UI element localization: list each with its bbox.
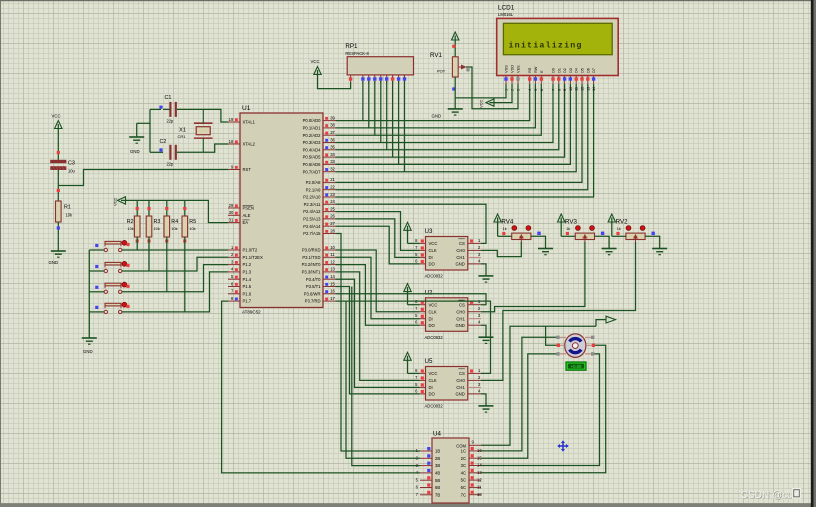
svg-text:10: 10 — [330, 245, 335, 250]
svg-text:CH1: CH1 — [456, 316, 465, 321]
svg-text:1k: 1k — [566, 227, 570, 231]
svg-text:17: 17 — [330, 296, 335, 301]
wire key1 to P1.0 — [122, 249, 228, 251]
svg-text:21: 21 — [330, 177, 335, 182]
wire P2.1 to LCD (bus line) — [336, 84, 588, 190]
U4 pin 2 2B — [416, 454, 441, 461]
LCD pin 2 VDD — [510, 65, 515, 91]
svg-text:R3: R3 — [154, 219, 161, 225]
svg-text:32: 32 — [330, 167, 335, 172]
motor rpm display — [566, 362, 586, 370]
svg-text:P1.4: P1.4 — [243, 277, 252, 282]
svg-text:RW: RW — [533, 66, 538, 73]
svg-text:GND: GND — [455, 392, 464, 397]
node blue square on ground bus row 2 — [95, 265, 98, 268]
svg-text:29: 29 — [229, 203, 234, 208]
pot RV3 1k body — [565, 219, 595, 244]
U1 pin 19 XTAL1 — [228, 117, 256, 125]
U1 pin 17 P3.7/RD — [305, 296, 336, 304]
LCD pin 11 D4 — [574, 67, 579, 91]
svg-text:R2: R2 — [127, 219, 134, 225]
watermark CSDN — [741, 488, 801, 502]
adc U5 ADC0832 body — [425, 358, 468, 409]
svg-text:DI: DI — [429, 255, 433, 260]
svg-text:DI: DI — [429, 385, 433, 390]
svg-text:RST: RST — [243, 167, 252, 172]
svg-text:GND: GND — [49, 260, 59, 265]
svg-text:5B: 5B — [435, 478, 440, 483]
U1 pin 9 RST — [228, 164, 251, 172]
svg-text:CS: CS — [459, 371, 465, 376]
wire U5 CS to U1 — [336, 301, 491, 373]
svg-text:P1.6: P1.6 — [243, 291, 252, 296]
wire P0.0 to LCD (bus line) — [336, 84, 530, 121]
wire R4 bottom to key row — [166, 237, 168, 292]
U3 pin 3 CH1 — [456, 252, 481, 260]
power flag VCC (RV3) — [558, 214, 576, 236]
svg-text:P2.1/A9: P2.1/A9 — [306, 187, 322, 192]
U1 pin 39 P0.0/AD0 — [303, 115, 336, 123]
svg-text:8: 8 — [556, 89, 561, 91]
svg-text:RESPACK-8: RESPACK-8 — [345, 51, 369, 56]
U5 pin 1 CS — [458, 368, 481, 376]
resistor R3 10k — [146, 216, 160, 237]
U1 pin 24 P2.3/A11 — [304, 199, 336, 207]
wire P0.2 to LCD (bus line) — [336, 84, 542, 135]
U4 pin 12 5C — [461, 476, 483, 483]
svg-text:10: 10 — [477, 492, 482, 497]
wire U4 3C to motor coil C — [481, 354, 600, 466]
wire P3.3 to U5 CLK — [336, 272, 420, 381]
wire LCD VEE to RV1 wiper — [466, 67, 518, 109]
ground symbol near X1 — [129, 137, 144, 154]
wire C3 to R1 with RST tap — [58, 170, 228, 202]
resistor R2 10k — [127, 216, 140, 237]
svg-text:7C: 7C — [461, 492, 466, 497]
wire P3.5 to U5 DO — [336, 287, 420, 394]
svg-text:27: 27 — [330, 221, 335, 226]
wire P0.1 to LCD (bus line) — [336, 84, 536, 128]
LCD pin 12 D5 — [580, 68, 585, 91]
power flag VCC (RV4) — [494, 214, 512, 236]
svg-text:RV3: RV3 — [565, 219, 577, 226]
wire P2.5 to U3 DI — [336, 219, 420, 258]
svg-text:13: 13 — [585, 87, 590, 91]
U1 pin 6 P1.5 — [228, 281, 252, 289]
U1 pin 22 P2.1/A9 — [306, 185, 336, 193]
U1 pin 28 P2.7/A15 — [303, 228, 335, 236]
svg-text:R4: R4 — [171, 219, 178, 225]
power flag VCC (RP1 common) — [311, 59, 322, 76]
adc U3 ADC0832 body — [425, 228, 468, 279]
wire RP1 pin2 to P0.0 bus — [362, 81, 364, 121]
svg-text:VSS: VSS — [504, 65, 509, 73]
U4 pin 4 4B — [416, 469, 441, 476]
svg-text:36: 36 — [330, 137, 335, 142]
wire key4 to P1.3 — [122, 272, 228, 312]
ground symbol for buttons — [82, 338, 97, 354]
U2 pin 1 CS — [458, 299, 481, 307]
U1 pin 7 P1.6 — [228, 289, 252, 297]
svg-text:POT: POT — [437, 69, 446, 74]
RP1 pin 9 — [403, 75, 406, 84]
svg-text:C1: C1 — [165, 95, 172, 101]
resistor R4 10k — [164, 216, 178, 237]
svg-text:34: 34 — [330, 152, 335, 157]
svg-text:D3: D3 — [568, 68, 573, 73]
RP1 pin 8 — [397, 75, 400, 84]
svg-text:5: 5 — [533, 89, 538, 91]
U4 pin 15 2C — [461, 454, 483, 461]
U1 pin 27 P2.6/A14 — [303, 221, 335, 229]
U1 pin 34 P0.5/AD5 — [303, 152, 336, 160]
node red square at button K1 — [126, 243, 129, 246]
svg-text:CSDN @cc: CSDN @cc — [741, 490, 792, 501]
svg-text:P0.6/AD6: P0.6/AD6 — [303, 162, 322, 167]
pot RV4 1k body — [501, 219, 531, 244]
svg-text:D2: D2 — [562, 68, 567, 73]
wire RP1 pin7 to P0.5 bus — [392, 81, 394, 157]
U3 pin 8 VCC — [415, 238, 437, 246]
capacitor C3 10u (electrolytic) — [50, 160, 75, 174]
wire R2 bottom to key row — [136, 237, 138, 250]
svg-text:XTAL1: XTAL1 — [243, 120, 256, 125]
U1 pin 33 P0.6/AD6 — [303, 159, 336, 167]
svg-text:33: 33 — [330, 159, 335, 164]
node red square above R3 — [147, 207, 150, 210]
svg-text:14: 14 — [330, 274, 335, 279]
wire P3.4 to U5 DI — [336, 279, 420, 387]
U1 pin 13 P3.3/INT1 — [302, 267, 336, 275]
svg-text:P2.3/A11: P2.3/A11 — [304, 202, 322, 207]
U3 pin 5 DI — [415, 252, 433, 260]
wire R5 bottom to key row — [184, 237, 186, 312]
wire key3 to P1.2 — [122, 265, 228, 292]
svg-text:RV4: RV4 — [501, 219, 513, 226]
power flag VCC (RV1) — [452, 32, 459, 42]
svg-text:D0: D0 — [551, 67, 556, 73]
svg-text:22: 22 — [330, 185, 335, 190]
U4 pin 1 1B — [416, 447, 441, 454]
svg-text:R1: R1 — [64, 205, 71, 211]
motor body — [565, 334, 586, 358]
svg-text:9: 9 — [562, 89, 567, 91]
wire RP1 pin8 to P0.6 bus — [398, 81, 400, 164]
svg-text:initializing: initializing — [509, 41, 583, 51]
node gray square at RV1 wiper — [466, 68, 469, 71]
adc U2 ADC0832 body — [425, 289, 468, 340]
U1 pin 11 P3.1/TXD — [302, 252, 335, 260]
svg-text:P0.7/AD7: P0.7/AD7 — [303, 169, 322, 174]
svg-text:38: 38 — [330, 123, 335, 128]
svg-text:VCC: VCC — [429, 371, 438, 376]
U1 pin 35 P0.4/AD4 — [303, 145, 336, 153]
svg-text:P0.3/AD3: P0.3/AD3 — [303, 140, 322, 145]
wire key2 to P1.1 — [122, 257, 228, 271]
key ground bus (left) — [88, 250, 90, 338]
wire P0.4 to LCD (bus line) — [336, 84, 559, 150]
pot RV2 1k body — [616, 219, 646, 244]
svg-text:24: 24 — [330, 199, 335, 204]
svg-text:P3.4/T0: P3.4/T0 — [306, 277, 321, 282]
power flag VCC (RV2) — [608, 214, 626, 236]
ground tap wire near X1 — [137, 123, 150, 137]
svg-text:11: 11 — [477, 485, 482, 490]
LCD pin 10 D3 — [568, 68, 573, 91]
svg-text:P0.1/AD1: P0.1/AD1 — [303, 126, 322, 131]
wire RV3 right terminal to ground — [595, 236, 610, 248]
node red square at button K2 — [126, 264, 129, 267]
node red square above R4 — [165, 207, 168, 210]
U1 pin 12 P3.2/INT0 — [302, 259, 336, 267]
svg-text:5C: 5C — [461, 478, 466, 483]
wire RP1 pin9 to P0.7 bus — [404, 81, 406, 172]
U1 pin 1 P1.0/T2 — [228, 245, 258, 253]
lcd screen with text initializing — [503, 23, 612, 54]
node red square at button K3 — [126, 285, 129, 288]
wire P0.6 to LCD (bus line) — [336, 84, 571, 164]
wire U4 1C to motor coil A — [481, 337, 556, 451]
U1 pin 18 XTAL2 — [228, 139, 256, 147]
U1 pin 32 P0.7/AD7 — [303, 167, 336, 175]
wire net to U4 3B — [352, 287, 420, 466]
U5 pin 7 CLK — [415, 375, 437, 383]
svg-text:10k: 10k — [171, 226, 177, 231]
svg-text:DI: DI — [429, 316, 433, 321]
power flag VCC (U5) — [404, 352, 420, 373]
U5 pin 2 CH0 — [456, 375, 481, 383]
node blue square on ground bus row 4 — [95, 306, 98, 309]
node blue square left of C1 — [159, 106, 162, 109]
svg-text:RV2: RV2 — [616, 219, 628, 226]
svg-text:E: E — [539, 70, 544, 73]
RP1 pin 5 — [379, 75, 382, 84]
svg-text:VCC: VCC — [311, 59, 320, 64]
U4 pin 13 4C — [461, 469, 483, 476]
svg-text:23: 23 — [330, 192, 335, 197]
svg-text:+0.00: +0.00 — [571, 364, 582, 369]
wire U4 2C to motor coil B — [481, 354, 556, 458]
svg-text:RV1: RV1 — [430, 52, 442, 59]
wire P0.3 to LCD (bus line) — [336, 84, 554, 143]
svg-text:C2: C2 — [160, 139, 167, 145]
svg-text:26: 26 — [330, 214, 335, 219]
U1 pin 21 P2.0/A8 — [306, 177, 336, 185]
U3 pin 6 DO — [415, 258, 435, 266]
svg-text:D1: D1 — [556, 68, 561, 73]
U1 pin 2 P1.1/T2EX — [228, 252, 263, 260]
capacitor C1 22p — [165, 95, 177, 124]
svg-text:10k: 10k — [154, 226, 160, 231]
svg-text:P1.0/T2: P1.0/T2 — [243, 248, 258, 253]
U1 pin 23 P2.2/A10 — [303, 192, 335, 200]
U2 pin 4 GND — [455, 320, 481, 328]
wire RV4 right terminal to ground — [531, 236, 546, 248]
wire LCD VDD to VCC — [495, 84, 512, 103]
node blue square on ground bus row 3 — [95, 286, 98, 289]
svg-text:CLK: CLK — [429, 378, 437, 383]
U2 pin 8 VCC — [415, 299, 437, 307]
node blue square right of RV4 — [537, 232, 540, 235]
svg-text:18: 18 — [229, 139, 234, 144]
svg-text:1B: 1B — [435, 449, 440, 454]
U4 pin 16 1C — [461, 447, 483, 454]
ground symbol (RV4) — [538, 249, 553, 255]
LCD pin 5 RW — [533, 66, 538, 91]
ground symbol below R1 — [49, 251, 66, 265]
wire RV1 bottom to ground — [454, 77, 456, 109]
power flag VCC (U3) — [404, 222, 420, 243]
U1 pin 15 P3.5/T1 — [306, 281, 336, 289]
node red square above C3 — [57, 151, 60, 154]
svg-text:P3.7/RD: P3.7/RD — [305, 299, 321, 304]
wire U2 CS to U1 — [336, 294, 487, 305]
svg-text:⁴: ⁴ — [787, 489, 790, 496]
svg-text:XTAL2: XTAL2 — [243, 142, 256, 147]
wire RP1 pin4 to P0.2 bus — [374, 81, 376, 135]
node red square left of RV2 — [616, 232, 619, 235]
svg-text:10u: 10u — [68, 169, 75, 174]
svg-text:RS: RS — [527, 67, 532, 73]
U3 pin 2 CH0 — [456, 245, 481, 253]
wire VCC to RV1 top — [454, 41, 456, 57]
U1 pin 3 P1.2 — [228, 259, 252, 267]
svg-text:GND: GND — [83, 349, 93, 354]
U1 pin 31 EA — [228, 217, 250, 225]
svg-text:6: 6 — [539, 89, 544, 91]
svg-text:P2.0/A8: P2.0/A8 — [306, 180, 322, 185]
wire C1 net to XTAL1 — [163, 109, 228, 122]
svg-text:DO: DO — [429, 392, 436, 397]
svg-text:PSEN: PSEN — [243, 206, 254, 211]
svg-text:C3: C3 — [68, 161, 75, 167]
svg-text:VCC: VCC — [479, 99, 484, 108]
svg-text:X1: X1 — [179, 128, 186, 134]
wire RV2 right terminal to ground — [645, 236, 660, 248]
svg-text:1C: 1C — [461, 449, 466, 454]
svg-text:16: 16 — [330, 289, 335, 294]
node red square left of RV4 — [502, 232, 505, 235]
push button K3 — [89, 282, 127, 293]
wire R3 bottom to key row — [148, 237, 150, 271]
U4 pin 14 3C — [461, 462, 483, 469]
wire P2.0 to LCD (bus line) — [336, 84, 583, 182]
RP1 pin 3 — [367, 75, 370, 84]
node blue square below R1 — [57, 226, 60, 229]
U2 pin 6 DO — [415, 320, 435, 328]
svg-text:15: 15 — [330, 281, 335, 286]
svg-text:VCC: VCC — [52, 114, 61, 119]
U1 pin 14 P3.4/T0 — [306, 274, 336, 282]
svg-text:VCC: VCC — [113, 197, 118, 206]
RP1 pin 6 — [385, 75, 388, 84]
svg-text:GND: GND — [455, 323, 464, 328]
svg-text:D7: D7 — [591, 68, 596, 73]
U1 pin 16 P3.6/WR — [304, 289, 336, 297]
svg-text:P3.1/TXD: P3.1/TXD — [302, 255, 320, 260]
svg-text:CR1: CR1 — [178, 134, 187, 139]
svg-text:3C: 3C — [461, 463, 466, 468]
wire R4 top to VCC rail — [166, 200, 168, 216]
svg-text:1k: 1k — [617, 227, 621, 231]
svg-text:R5: R5 — [189, 219, 196, 225]
svg-text:P0.5/AD5: P0.5/AD5 — [303, 155, 322, 160]
svg-text:U4: U4 — [433, 431, 441, 438]
wire U4 4C to motor coil D — [481, 345, 606, 473]
U4 pin 10 7C — [461, 491, 483, 498]
power flag VCC (pull-up rail, rotated) — [113, 197, 128, 206]
wire VCC to C3 — [57, 130, 59, 161]
svg-text:4B: 4B — [435, 471, 440, 476]
wire P1.7 to U4 4B — [222, 301, 420, 473]
node red square below R3 — [147, 239, 150, 242]
svg-text:P2.2/A10: P2.2/A10 — [303, 195, 321, 200]
node red square below R4 — [165, 239, 168, 242]
svg-text:37: 37 — [330, 130, 335, 135]
svg-text:D6: D6 — [585, 68, 590, 73]
U4 pin 7 7B — [416, 491, 441, 498]
U5 pin 8 VCC — [415, 368, 437, 376]
U1 pin 36 P0.3/AD3 — [303, 137, 336, 145]
U5 pin 3 CH1 — [456, 382, 481, 390]
wire P3.1 to U2 DI — [336, 257, 420, 318]
svg-text:P0.0/AD0: P0.0/AD0 — [303, 118, 322, 123]
U1 pin 4 P1.3 — [228, 267, 252, 275]
svg-text:7B: 7B — [435, 492, 440, 497]
U4 pin 9 COM — [456, 440, 481, 449]
crystal X1 — [178, 109, 213, 152]
svg-text:AT89C52: AT89C52 — [242, 310, 261, 315]
svg-text:19: 19 — [229, 117, 234, 122]
LCD pin 14 D7 — [591, 68, 596, 91]
resistor R1 10k — [56, 201, 74, 222]
power flag VCC (top-left) — [52, 114, 63, 131]
svg-text:30: 30 — [229, 210, 234, 215]
push button K2 — [89, 261, 127, 272]
ground symbol (U2) — [479, 337, 494, 343]
svg-text:12: 12 — [330, 259, 335, 264]
push button K4 — [89, 302, 127, 313]
svg-text:12: 12 — [580, 87, 585, 91]
svg-text:U2: U2 — [425, 289, 433, 296]
U3 pin 1 CS — [458, 238, 481, 246]
node blue square right of RV3 — [601, 232, 604, 235]
U1 pin 26 P2.5/A13 — [303, 214, 335, 222]
resistor R5 10k — [182, 216, 196, 237]
svg-text:P1.3: P1.3 — [243, 270, 252, 275]
svg-text:22p: 22p — [167, 119, 175, 124]
svg-text:CH0: CH0 — [456, 378, 465, 383]
node blue square left of C2 — [159, 148, 162, 151]
svg-text:P2.7/A15: P2.7/A15 — [303, 231, 321, 236]
svg-text:CH0: CH0 — [456, 309, 465, 314]
svg-text:31: 31 — [229, 217, 234, 222]
wire R5 top to VCC rail — [184, 200, 186, 216]
svg-text:GND: GND — [455, 262, 464, 267]
wire P2.7 to U4 1B — [336, 234, 421, 452]
svg-text:P3.3/INT1: P3.3/INT1 — [302, 270, 322, 275]
wire U4 COM to motor common and VCC arrow net — [481, 320, 607, 446]
svg-text:10k: 10k — [189, 226, 195, 231]
LCD pin 4 RS — [527, 67, 532, 91]
wire C2 net to XTAL2 — [177, 144, 228, 152]
U1 pin 30 ALE — [228, 210, 251, 218]
RP1 pin 1 — [349, 75, 352, 84]
svg-text:P3.6/WR: P3.6/WR — [304, 291, 321, 296]
svg-text:U5: U5 — [425, 358, 433, 365]
node red square below R2 — [136, 239, 139, 242]
node red square below R5 — [183, 239, 186, 242]
